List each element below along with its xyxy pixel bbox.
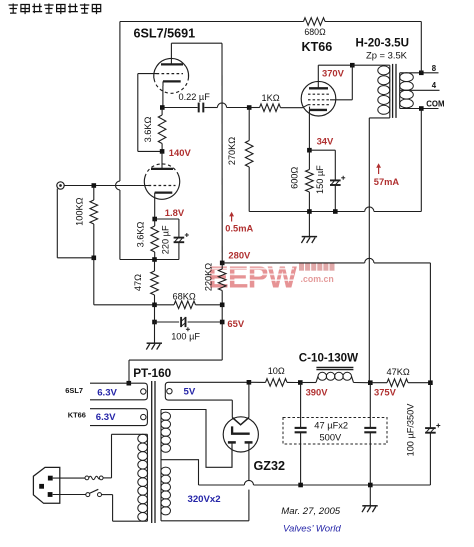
- svg-text:Mar. 27, 2005: Mar. 27, 2005: [281, 506, 341, 517]
- triode V1a envelope: [144, 175, 179, 200]
- node KT66 grid: [247, 105, 252, 110]
- AC plug: [33, 467, 59, 503]
- node 370V: [350, 63, 355, 68]
- svg-text:500V: 500V: [320, 432, 343, 442]
- svg-text:150 µF: 150 µF: [315, 165, 325, 194]
- GZ32 plate left: [228, 441, 236, 444]
- svg-text:100 µF: 100 µF: [171, 332, 200, 342]
- label arrow 0.5mA: [231, 214, 233, 222]
- ground symbol KT66: [308, 212, 310, 237]
- svg-text:100KΩ: 100KΩ: [75, 197, 85, 225]
- capacitor 100µF/350V: [429, 383, 431, 428]
- svg-text:PT-160: PT-160: [133, 366, 171, 380]
- svg-text:3.6KΩ: 3.6KΩ: [143, 116, 153, 142]
- svg-text:34V: 34V: [317, 136, 334, 147]
- rectifier GZ32 envelope: [223, 417, 258, 452]
- svg-text:6.3V: 6.3V: [97, 387, 117, 398]
- svg-text:6SL7/5691: 6SL7/5691: [134, 26, 196, 40]
- svg-text:375V: 375V: [374, 387, 397, 398]
- svg-text:H-20-3.5U: H-20-3.5U: [356, 37, 409, 50]
- resistor 680Ω: [304, 18, 326, 26]
- wire KT66 plate to OPT: [317, 65, 319, 88]
- wire V1a plate to 140V node: [161, 151, 163, 169]
- svg-text:680Ω: 680Ω: [304, 27, 326, 37]
- wire cathode ground bus: [249, 211, 364, 213]
- resistor 1KΩ: [249, 107, 259, 109]
- svg-text:4: 4: [432, 81, 437, 90]
- wire jack ground drop: [56, 189, 58, 258]
- node bus 47µF right: [368, 483, 373, 488]
- svg-text:KT66: KT66: [68, 410, 86, 419]
- wire NFB left drop: [119, 22, 121, 182]
- svg-text:0.5mA: 0.5mA: [225, 224, 253, 234]
- ground symbol input stage: [154, 322, 156, 343]
- V1a cathode: [155, 191, 173, 193]
- svg-text:47 µFx2: 47 µFx2: [314, 420, 348, 430]
- resistor 68KΩ: [155, 304, 175, 306]
- svg-text:1.8V: 1.8V: [165, 207, 185, 218]
- node 390V: [298, 380, 303, 385]
- svg-text:Valves’ World: Valves’ World: [283, 524, 341, 535]
- V1b grid: [157, 73, 184, 75]
- wire switch to PT primary: [102, 494, 113, 496]
- transformer PT HV winding 320Vx2: [160, 410, 162, 521]
- KT66 cathode: [310, 109, 328, 111]
- wire PSU ground bus: [199, 484, 245, 486]
- svg-text:GZ32: GZ32: [254, 459, 286, 473]
- wire OPT primary feed: [369, 117, 390, 119]
- capacitor 0.22µF: [162, 107, 197, 109]
- node 65V junction: [220, 303, 225, 308]
- svg-text:68KΩ: 68KΩ: [173, 292, 196, 302]
- svg-text:5V: 5V: [184, 387, 196, 398]
- svg-text:47Ω: 47Ω: [133, 274, 143, 291]
- wire V1b plate to B+ riser: [170, 43, 172, 64]
- resistor 100KΩ: [93, 186, 95, 201]
- transformer PT core: [151, 381, 153, 523]
- wire GZ32 filament left to 5V: [231, 400, 233, 417]
- KT66 grid g2 tie row: [308, 99, 330, 101]
- label arrow 57mA: [378, 165, 380, 174]
- capacitor 220µF: [155, 218, 179, 220]
- svg-text:6.3V: 6.3V: [96, 412, 116, 423]
- svg-text:COM: COM: [426, 100, 444, 109]
- resistor 47Ω: [154, 260, 156, 272]
- wire SRPP B+ riser: [221, 43, 223, 263]
- wire plug to switch: [53, 494, 86, 496]
- node bus 600Ω: [307, 209, 312, 214]
- svg-text:0.22 µF: 0.22 µF: [179, 92, 211, 102]
- wire top feedback riser: [420, 22, 422, 73]
- wire PT primary bottom: [113, 520, 148, 522]
- svg-text:57mA: 57mA: [374, 177, 400, 187]
- V1a plate: [151, 168, 173, 170]
- svg-text:8: 8: [432, 64, 437, 73]
- svg-text:140V: 140V: [169, 147, 192, 158]
- svg-text:280V: 280V: [228, 250, 251, 261]
- wire screen tie: [351, 65, 353, 100]
- svg-text:3.6KΩ: 3.6KΩ: [135, 221, 145, 247]
- wire tap 4 ohm: [400, 89, 440, 91]
- wire tap COM: [400, 108, 422, 110]
- wire input: [64, 185, 148, 187]
- wire tap 8 ohm: [400, 72, 422, 74]
- wire fuse to PT primary: [103, 477, 111, 479]
- GZ32 cathode hook: [232, 426, 250, 433]
- wire 280V feed: [222, 262, 364, 264]
- node heater winding ref: [127, 381, 132, 386]
- KT66 control grid g1: [308, 104, 329, 106]
- pentode KT66 envelope: [301, 81, 336, 116]
- triode V1b envelope: [154, 59, 189, 82]
- node rectifier output: [247, 380, 252, 385]
- svg-text:100 µF/350V: 100 µF/350V: [406, 403, 416, 457]
- transformer PT primary winding: [146, 434, 148, 521]
- capacitor 100µF: [155, 321, 180, 323]
- node ground junction A: [152, 303, 157, 308]
- node 280V: [220, 261, 225, 266]
- resistor 47KΩ: [370, 382, 387, 384]
- transformer OPT core: [392, 64, 394, 118]
- node grid leak top: [92, 183, 97, 188]
- wire PT primary top: [112, 433, 148, 435]
- KT66 screen grid g2: [308, 93, 329, 95]
- transformer OPT secondary: [399, 73, 401, 109]
- transformer OPT primary: [389, 65, 391, 118]
- resistor 270KΩ: [248, 108, 250, 141]
- resistor 3.6KΩ upper: [161, 108, 163, 116]
- svg-text:47KΩ: 47KΩ: [387, 367, 410, 377]
- capacitor 150µF: [309, 149, 335, 151]
- svg-text:220KΩ: 220KΩ: [204, 263, 214, 291]
- ground symbol PSU: [369, 485, 371, 506]
- node B+ takeoff: [428, 380, 433, 385]
- wire heater elevation: [221, 322, 223, 360]
- node cathode bottom: [152, 257, 157, 262]
- GZ32 filament: [232, 418, 249, 425]
- svg-text:10Ω: 10Ω: [268, 366, 285, 376]
- svg-text:6SL7: 6SL7: [65, 386, 83, 395]
- resistor 600Ω: [308, 150, 310, 169]
- switch S1: [86, 493, 90, 497]
- svg-text:270KΩ: 270KΩ: [227, 137, 237, 165]
- resistor 3.6KΩ cathode: [154, 219, 156, 226]
- svg-text:390V: 390V: [306, 386, 329, 397]
- wire COM return: [420, 109, 422, 212]
- transformer PT 5V winding: [165, 382, 249, 400]
- node tap 8: [419, 71, 424, 76]
- title text 电子制作天地收藏: [9, 4, 101, 15]
- node tap COM: [419, 106, 424, 111]
- wire plug to fuse: [53, 477, 85, 479]
- svg-text:370V: 370V: [322, 68, 345, 79]
- svg-text:1KΩ: 1KΩ: [262, 93, 280, 103]
- svg-text:220 µF: 220 µF: [160, 225, 170, 254]
- wire V1b grid to node 140V: [138, 73, 157, 75]
- V1b plate: [161, 63, 183, 65]
- capacitor 47µF left: [300, 383, 302, 428]
- node 34V: [307, 148, 312, 153]
- wire GZ32 output: [248, 382, 250, 417]
- node SRPP output: [160, 105, 165, 110]
- node bus 150µF: [333, 209, 338, 214]
- box filter caps: [283, 418, 387, 445]
- transformer PT heater winding KT66: [90, 409, 147, 426]
- wire HV center tap: [161, 460, 199, 485]
- GZ32 plate right: [245, 441, 253, 444]
- wire HV top to GZ32 plate: [161, 410, 232, 468]
- node bus 47µF left: [298, 483, 303, 488]
- transformer PT heater winding 6SL7: [90, 383, 147, 400]
- wire NFB top: [120, 21, 304, 23]
- input jack J1: [57, 182, 64, 189]
- svg-text:.com.cn: .com.cn: [301, 274, 334, 284]
- wire signal-ground feed: [93, 258, 95, 305]
- svg-text:KT66: KT66: [302, 40, 333, 54]
- resistor 220KΩ: [221, 263, 223, 269]
- V1b cathode: [163, 80, 181, 82]
- KT66 plate: [309, 87, 328, 89]
- node V1a cathode 1.8V: [152, 217, 157, 222]
- node 375V: [368, 380, 373, 385]
- svg-text:C-10-130W: C-10-130W: [299, 352, 358, 365]
- resistor 10Ω: [249, 381, 266, 383]
- capacitor 47µF right: [369, 383, 371, 428]
- svg-text:65V: 65V: [227, 318, 244, 329]
- svg-text:320Vx2: 320Vx2: [188, 494, 221, 505]
- node ground junction B: [152, 320, 157, 325]
- fuse F1: [85, 476, 89, 480]
- watermark EEPW logo: [208, 260, 335, 295]
- node 140V: [160, 149, 165, 154]
- node 100K bottom: [92, 256, 97, 261]
- svg-text:600Ω: 600Ω: [289, 167, 299, 189]
- svg-text:Zp = 3.5K: Zp = 3.5K: [366, 50, 408, 61]
- V1a grid: [149, 185, 176, 187]
- wire HV bottom to GZ32 plate: [161, 520, 249, 522]
